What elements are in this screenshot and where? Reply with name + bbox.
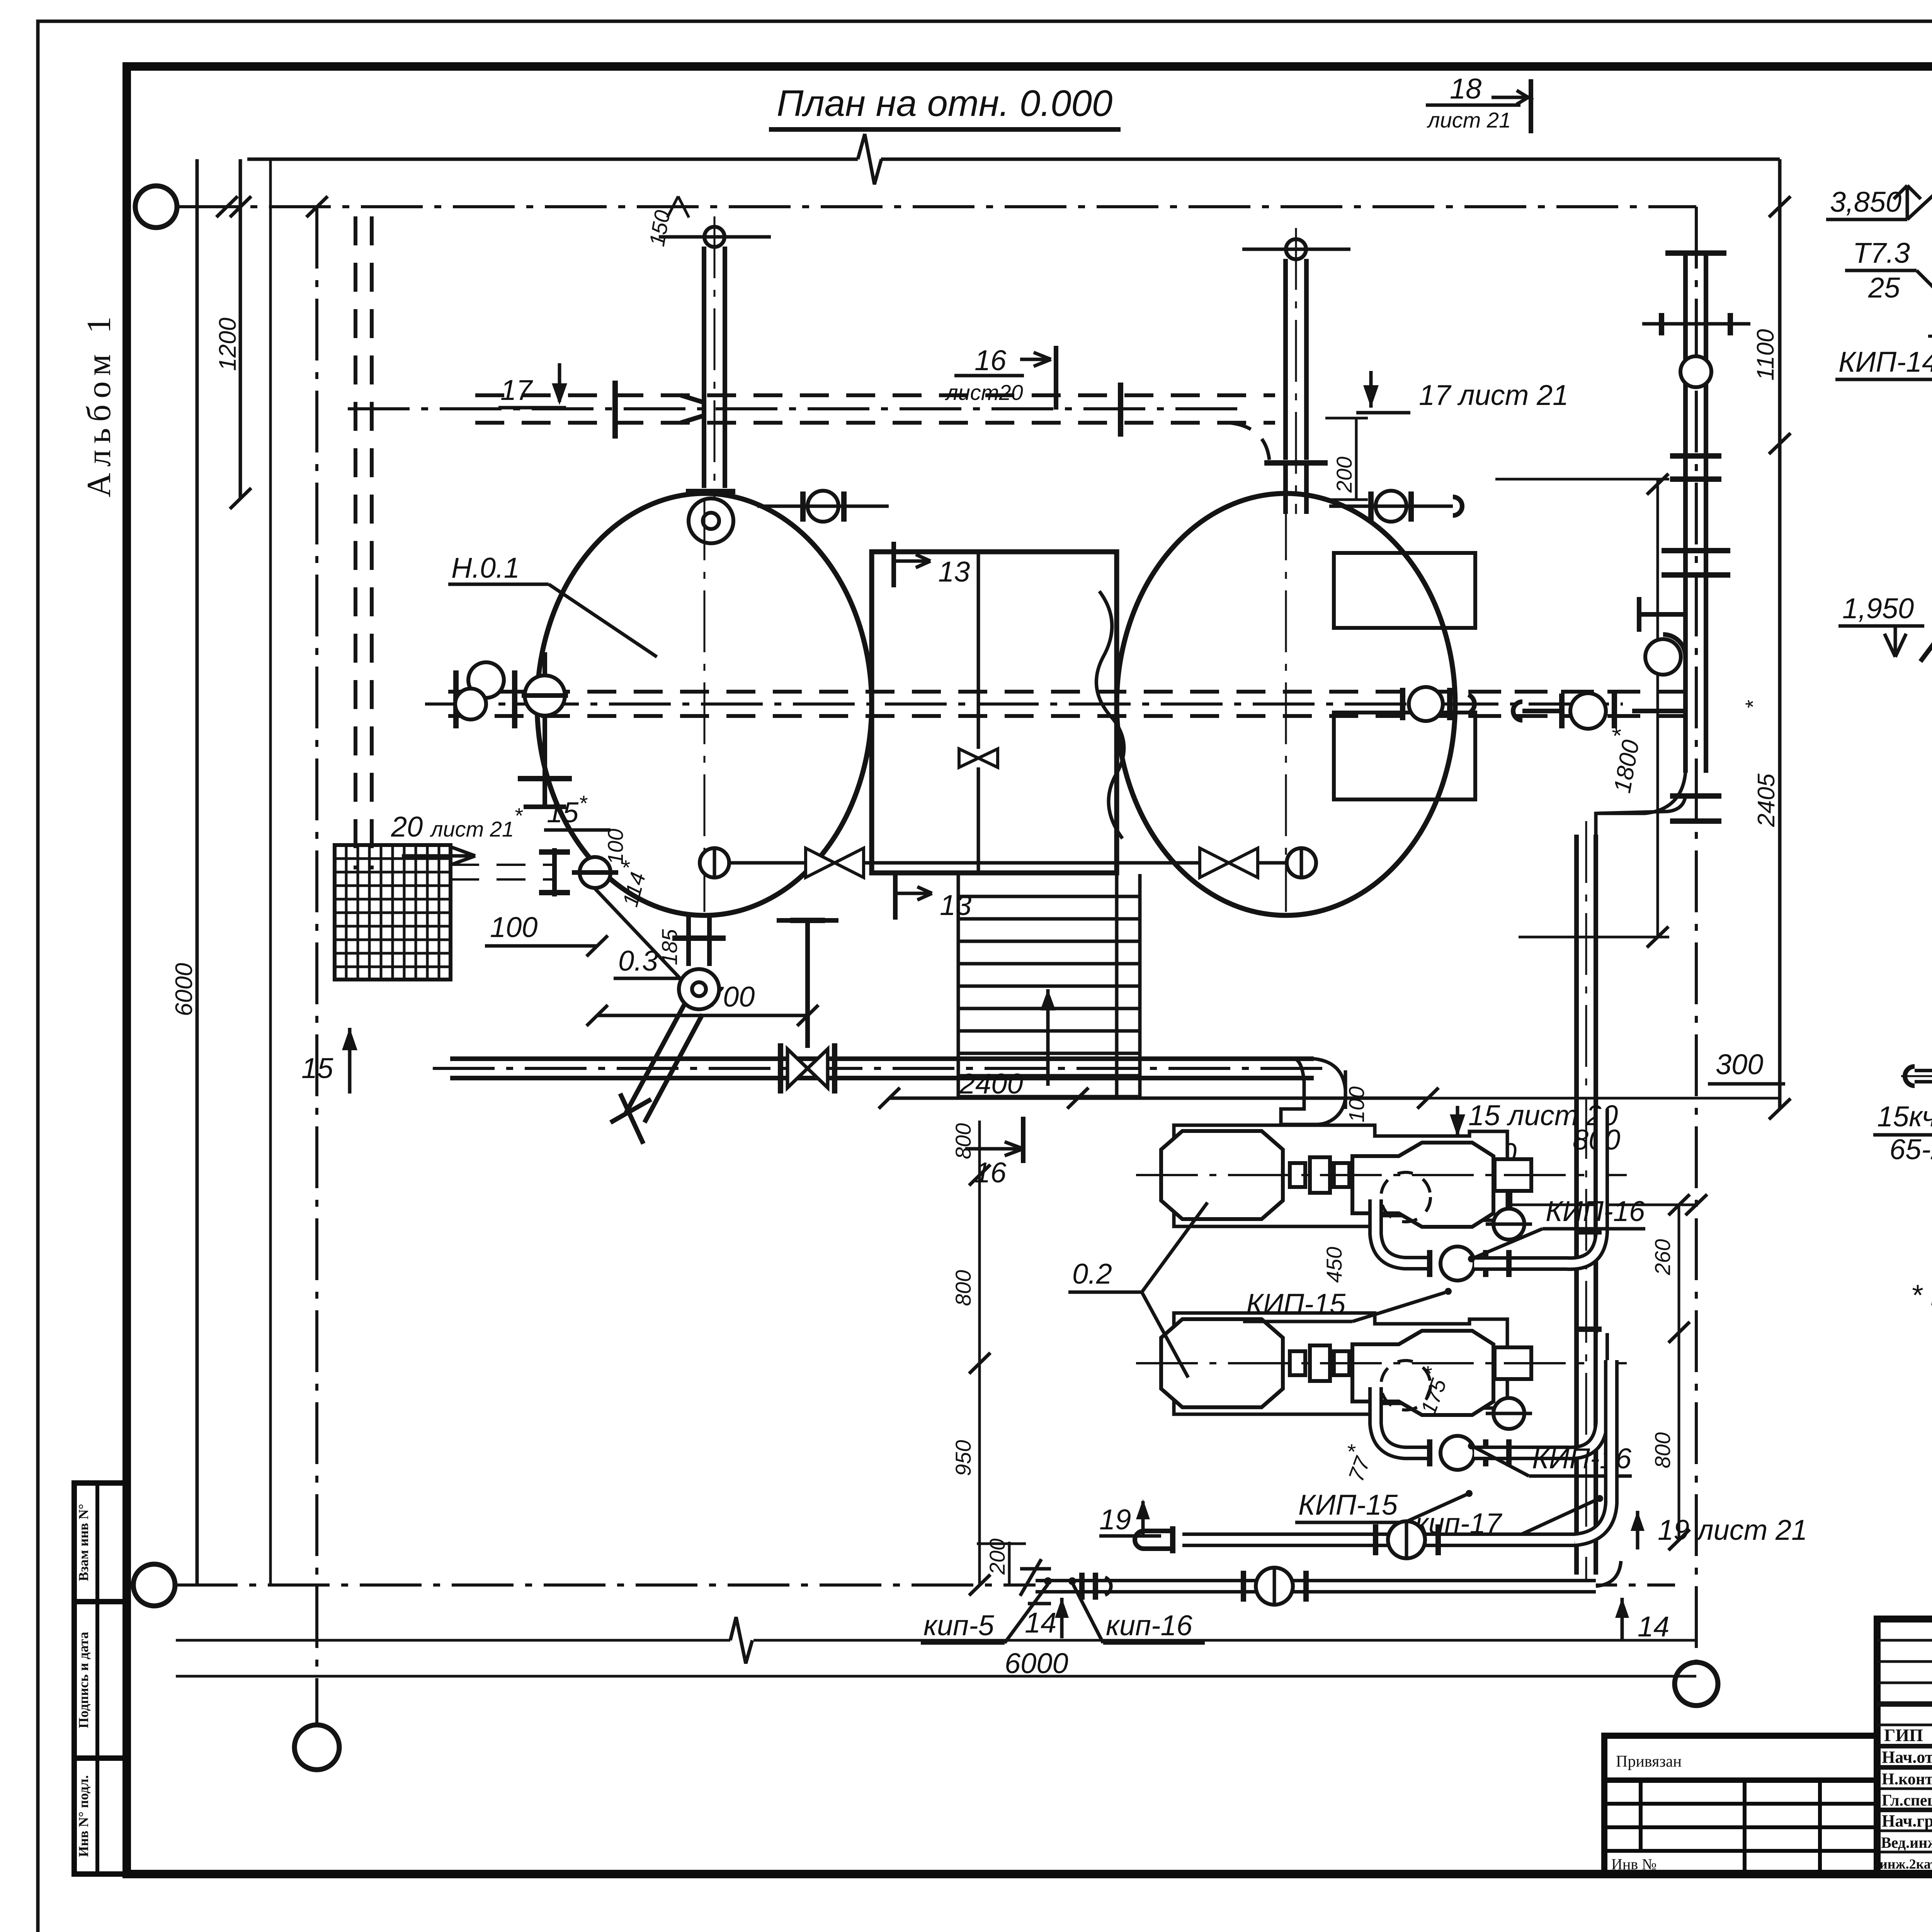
riser 2 elbow bbox=[1229, 423, 1269, 460]
svg-text:950: 950 bbox=[951, 1440, 975, 1476]
pump2 axis bbox=[1136, 1362, 1627, 1364]
top dashed pipes to risers bbox=[475, 393, 1275, 397]
right end elbow of lower run bbox=[1281, 1059, 1345, 1124]
lower pipe run bbox=[1915, 1069, 1932, 1083]
column flange stack bbox=[1670, 453, 1721, 459]
tank2 axis cross bbox=[1285, 498, 1287, 912]
left tank N.O.1 bbox=[537, 493, 872, 915]
stairs bbox=[958, 873, 1140, 1097]
column bottom tee flanges bbox=[1670, 793, 1721, 799]
svg-text:16: 16 bbox=[975, 344, 1007, 376]
sign table rows bbox=[1877, 1639, 1932, 1642]
pump unit 2 frame bbox=[1174, 1313, 1507, 1414]
privyazan grid bbox=[1604, 1802, 1877, 1806]
pump1 body bbox=[1352, 1143, 1493, 1227]
flanges and dots on bottom pipe bbox=[1079, 1573, 1085, 1600]
column valve with side handle bbox=[1639, 597, 1685, 632]
svg-text:17: 17 bbox=[500, 374, 533, 406]
svg-text:185: 185 bbox=[657, 929, 682, 965]
vertical axis x=4390 bbox=[1695, 207, 1698, 1661]
break squiggle bbox=[858, 134, 881, 184]
svg-text:Инв N° подл.: Инв N° подл. bbox=[76, 1775, 91, 1857]
dim line 1200 vertical bbox=[239, 159, 242, 498]
svg-text:14: 14 bbox=[1638, 1611, 1669, 1643]
svg-text:100: 100 bbox=[1344, 1087, 1369, 1122]
gate valve on lower run bbox=[778, 1043, 783, 1094]
svg-text:Нач.отд: Нач.отд bbox=[1882, 1748, 1932, 1767]
riser 1 top circle bbox=[704, 227, 724, 247]
svg-text:13: 13 bbox=[938, 556, 970, 588]
tank2 top-left nozzle valve bbox=[808, 491, 838, 522]
svg-text:Н.контр.: Н.контр. bbox=[1882, 1770, 1932, 1788]
riser 2 top circle bbox=[1286, 239, 1306, 259]
right 17 list 21 mark bbox=[1369, 371, 1373, 408]
vertical axis x=820 bbox=[315, 207, 318, 1724]
reducer at riser1 bbox=[681, 395, 703, 423]
svg-text:6000: 6000 bbox=[1005, 1647, 1068, 1679]
column circle fitting 1 bbox=[1680, 356, 1711, 387]
svg-text:КИП-15: КИП-15 bbox=[1298, 1489, 1398, 1521]
svg-text:Инв №: Инв № bbox=[1611, 1855, 1656, 1873]
svg-text:лист 21: лист 21 bbox=[1427, 108, 1511, 132]
svg-text:Альбом 1: Альбом 1 bbox=[80, 310, 118, 497]
right dim line x=4606 bbox=[1778, 159, 1782, 1109]
privyazan outline bbox=[1604, 1736, 1877, 1873]
svg-text:6000: 6000 bbox=[171, 963, 197, 1016]
tank2 top nozzle valve right bbox=[1376, 491, 1406, 522]
lower distribution pipe y=3985 bbox=[1182, 1532, 1575, 1547]
column top tee bbox=[1665, 250, 1726, 256]
breakout boxes on right tank bbox=[1334, 553, 1475, 628]
elbow right end bottom pipe bbox=[1596, 1561, 1621, 1586]
svg-text:2405: 2405 bbox=[1753, 774, 1780, 827]
pump2 motor octagon bbox=[1161, 1319, 1283, 1407]
svg-text:19 лист 21: 19 лист 21 bbox=[1658, 1514, 1807, 1546]
right tank mid valve on axis bbox=[1409, 687, 1443, 721]
valve inside equipment room bbox=[959, 749, 998, 767]
column lower valve cluster bbox=[1570, 693, 1606, 729]
svg-text:1200: 1200 bbox=[214, 318, 241, 371]
svg-text:16: 16 bbox=[975, 1156, 1007, 1189]
svg-text:кип-16: кип-16 bbox=[1106, 1609, 1193, 1641]
svg-text:инж.2кат.: инж.2кат. bbox=[1879, 1856, 1932, 1872]
svg-text:кип-5: кип-5 bbox=[923, 1609, 994, 1641]
svg-text:* Размеры для справок: * Размеры для справок bbox=[1911, 1279, 1932, 1312]
right riser column assembly bbox=[1683, 255, 1688, 773]
svg-text:КИП-16: КИП-16 bbox=[1546, 1195, 1645, 1227]
flange on dashed pipe bbox=[612, 381, 618, 439]
svg-text:Привязан: Привязан bbox=[1616, 1753, 1682, 1770]
svg-text:15кч16п1: 15кч16п1 bbox=[1877, 1100, 1932, 1133]
pump2 body bbox=[1352, 1331, 1493, 1415]
tank1 drain assembly bottom bbox=[686, 915, 691, 966]
vertical pipe risers from pit to tanks bbox=[354, 216, 357, 869]
svg-text:100: 100 bbox=[603, 829, 628, 865]
left end of 3985 pipe bbox=[1170, 1526, 1175, 1553]
svg-text:800: 800 bbox=[1650, 1432, 1675, 1468]
riser 1 pipe bbox=[702, 247, 706, 488]
svg-text:2400: 2400 bbox=[959, 1068, 1023, 1100]
left end break of bottom pipe bbox=[1020, 1559, 1051, 1604]
dim line x=700 vertical bbox=[269, 159, 272, 1585]
svg-text:Гл.спец: Гл.спец bbox=[1882, 1792, 1932, 1810]
pump2 coupling bbox=[1290, 1351, 1305, 1375]
svg-text:*: * bbox=[1741, 700, 1765, 709]
svg-text:Т7.3: Т7.3 bbox=[1853, 237, 1910, 269]
svg-text:ГИП: ГИП bbox=[1884, 1725, 1923, 1745]
dashed pipe tank2 to column bbox=[1472, 690, 1685, 694]
dim line 6000 vertical bbox=[196, 159, 199, 1585]
svg-text:КИП-14.1: КИП-14.1 bbox=[1838, 346, 1932, 378]
pump1 discharge manifold bbox=[1376, 1199, 1428, 1263]
axis circle left bottom bbox=[133, 1564, 175, 1606]
axis circle bottom x=4390 bbox=[1675, 1662, 1718, 1706]
pump1 motor octagon bbox=[1161, 1131, 1283, 1219]
diagonal drain pipe bbox=[626, 1004, 702, 1122]
tank 1 vent circle bbox=[689, 498, 733, 543]
svg-text:25: 25 bbox=[1868, 272, 1900, 304]
right tank bbox=[1117, 493, 1455, 915]
valve on 3985 pipe bbox=[1373, 1524, 1378, 1555]
top dimension line bbox=[247, 158, 858, 161]
svg-text:300: 300 bbox=[1716, 1048, 1763, 1080]
svg-text:100: 100 bbox=[490, 911, 537, 943]
svg-text:800: 800 bbox=[951, 1270, 975, 1306]
hatched grid pit bbox=[335, 845, 451, 980]
pipe down from column bbox=[1574, 835, 1579, 1575]
left inlet assembly bbox=[468, 662, 504, 698]
riser 2 flange bbox=[1264, 460, 1328, 466]
tank1 axis cross bbox=[704, 498, 706, 912]
pump1 coupling bbox=[1290, 1163, 1305, 1187]
pump1 axis bbox=[1136, 1174, 1627, 1176]
dim 200 bracket at riser2 bbox=[1325, 417, 1368, 420]
wavy break between tanks bbox=[1096, 591, 1124, 838]
svg-text:1100: 1100 bbox=[1752, 329, 1779, 381]
horizontal axis with circle bbox=[177, 205, 1696, 208]
equipment room rectangle bbox=[872, 552, 1117, 873]
svg-text:3,850: 3,850 bbox=[1830, 186, 1901, 218]
19 list 21 mark bbox=[1636, 1511, 1639, 1549]
svg-text:450: 450 bbox=[1322, 1247, 1346, 1283]
svg-text:260: 260 bbox=[1650, 1239, 1675, 1276]
bottom dim line 6000 bbox=[176, 1639, 730, 1642]
svg-text:18: 18 bbox=[1450, 73, 1481, 105]
svg-text:65-2.5: 65-2.5 bbox=[1889, 1133, 1932, 1165]
floor line bbox=[1920, 646, 1932, 662]
svg-text:19: 19 bbox=[1099, 1503, 1131, 1536]
main horizontal axis pipe through tanks bbox=[448, 690, 1615, 694]
svg-text:15: 15 bbox=[301, 1052, 333, 1084]
15 list 20 mark bbox=[1456, 1106, 1459, 1145]
lower pipe run y=2765 bbox=[450, 1056, 1314, 1061]
riser 1 flange on tank bbox=[686, 489, 735, 494]
svg-text:Взам инв N°: Взам инв N° bbox=[76, 1504, 91, 1581]
dashed pipe from pit to fitting bbox=[450, 864, 556, 866]
svg-text:Вед.инж.: Вед.инж. bbox=[1881, 1834, 1932, 1851]
svg-text:Подпись и дата: Подпись и дата bbox=[76, 1632, 91, 1728]
svg-text:План на отн. 0.000: План на отн. 0.000 bbox=[777, 83, 1112, 124]
left margin stamp boxes bbox=[74, 1483, 127, 1874]
valve on bottom pipe bbox=[1241, 1571, 1246, 1602]
stair arrow up bbox=[1046, 989, 1050, 1086]
axis circle bottom x=820 bbox=[294, 1725, 339, 1770]
tank1 mid-left valve on axis bbox=[455, 689, 486, 719]
horizontal axis y=4100 bbox=[176, 1583, 1675, 1587]
axis circle left top bbox=[135, 186, 177, 228]
tick marks top axis bbox=[216, 196, 238, 217]
svg-text:Н.0.1: Н.0.1 bbox=[451, 552, 520, 584]
riser 2 pipe bbox=[1283, 259, 1288, 460]
pump unit 1 frame bbox=[1174, 1125, 1507, 1226]
svg-text:1,950: 1,950 bbox=[1842, 592, 1914, 624]
svg-text:КИП-15: КИП-15 bbox=[1246, 1288, 1346, 1320]
bottom long pipe y=4105 bbox=[1036, 1579, 1596, 1594]
svg-text:17 лист 21: 17 лист 21 bbox=[1419, 379, 1568, 411]
svg-text:лист20: лист20 bbox=[945, 380, 1023, 405]
svg-text:200: 200 bbox=[1332, 457, 1356, 493]
pump2 discharge manifold bbox=[1376, 1387, 1428, 1453]
svg-text:800: 800 bbox=[951, 1123, 975, 1159]
small fitting left of tank1 bbox=[552, 848, 557, 896]
svg-text:13: 13 bbox=[940, 889, 971, 921]
bowtie drain valves row y=2233 bbox=[700, 848, 729, 878]
svg-text:Нач.гр.: Нач.гр. bbox=[1882, 1811, 1932, 1830]
svg-text:0.2: 0.2 bbox=[1072, 1258, 1112, 1290]
title block outline bbox=[1877, 1619, 1932, 1873]
